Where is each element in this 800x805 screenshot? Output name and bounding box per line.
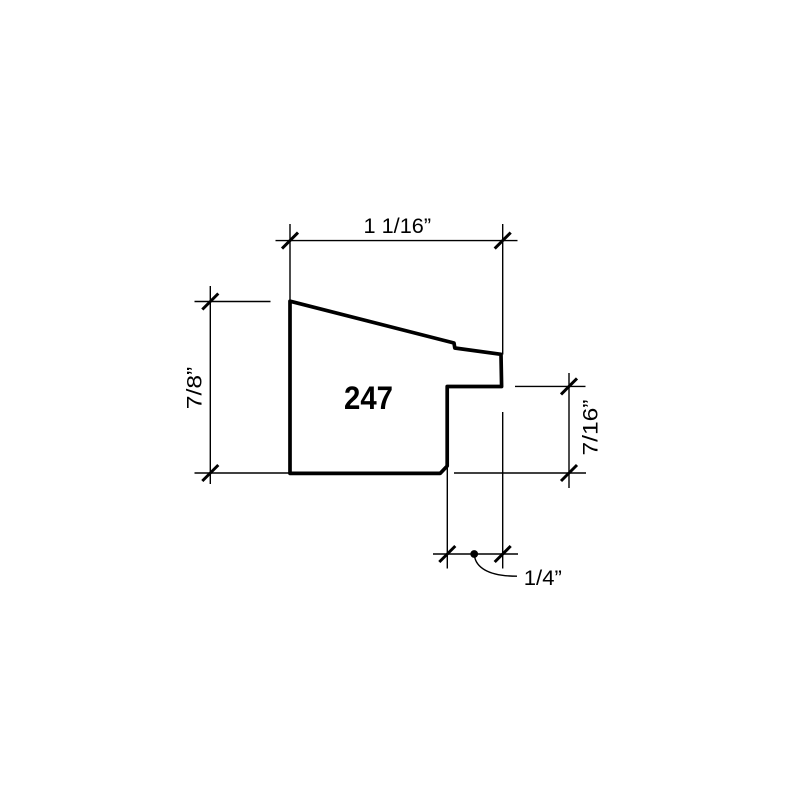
- dimension 7/16 top extension: [515, 385, 586, 387]
- dimension 7/16 bottom tick: [561, 465, 577, 481]
- dimension 1 1/16 left extension: [289, 224, 291, 300]
- svg-text:1/4”: 1/4”: [524, 567, 562, 590]
- dimension 7/8 bottom tick: [202, 465, 218, 481]
- svg-text:247: 247: [344, 380, 393, 416]
- dimension 1 1/16 right extension: [502, 224, 504, 355]
- dimension 1 1/16 line: [276, 240, 518, 242]
- dimension 7/8 top extension: [195, 301, 271, 303]
- dimension 1/4 leader curve: [475, 556, 518, 576]
- dimension 7/16 bottom extension: [454, 472, 586, 474]
- svg-text:7/8”: 7/8”: [183, 367, 206, 410]
- dimension 7/16 line: [568, 373, 570, 488]
- dimension 7/8 top tick: [202, 294, 218, 310]
- dimension 7/8 line: [209, 286, 211, 484]
- svg-text:7/16”: 7/16”: [579, 400, 602, 456]
- moulding profile 247 outline: [290, 301, 502, 473]
- dimension 7/16 top tick: [561, 378, 577, 394]
- svg-text:1 1/16”: 1 1/16”: [364, 215, 432, 238]
- dimension 7/8 bottom extension: [195, 472, 289, 474]
- dimension 1/4 line: [433, 553, 518, 555]
- dimension 1/4 right extension: [502, 412, 504, 569]
- dimension 1 1/16 right tick: [495, 233, 511, 249]
- dimension 1/4 right tick: [495, 546, 511, 562]
- dimension 1/4 leader dot: [470, 550, 478, 558]
- dimension 1 1/16 left tick: [282, 233, 298, 249]
- dimension 1/4 left extension: [446, 466, 448, 569]
- dimension 1/4 left tick: [439, 546, 455, 562]
